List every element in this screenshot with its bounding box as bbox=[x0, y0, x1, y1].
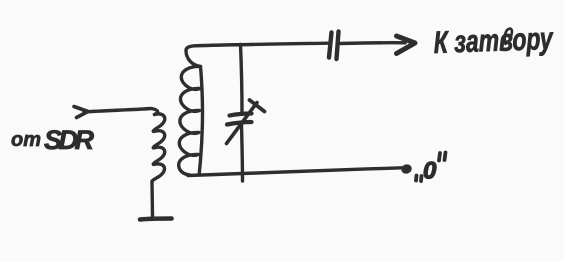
svg-text:SDR: SDR bbox=[44, 125, 95, 155]
wire: junction branch down to trimmer bbox=[241, 45, 243, 113]
inductor L1 (primary winding) bbox=[152, 114, 165, 182]
inductor L2: spine (return strokes) bbox=[199, 67, 202, 174]
arrowhead to gate bbox=[397, 36, 416, 54]
svg-text:К затвору: К затвору bbox=[433, 21, 554, 60]
wire: trimmer to bottom wire bbox=[242, 125, 243, 181]
trimmer arrow diagonal bbox=[227, 103, 258, 144]
terminal dot "0" bbox=[400, 163, 413, 174]
label "К затвору": ascender loop of cursive "в" bbox=[505, 29, 512, 44]
wire: coil to ground bbox=[150, 182, 154, 217]
wire: top (coil to capacitor C1) bbox=[195, 43, 328, 46]
trimmer capacitor C2 bottom plate bbox=[227, 122, 252, 125]
wire: C1 to output arrow bbox=[340, 41, 405, 45]
ground bbox=[140, 219, 172, 220]
capacitor C1 left plate bbox=[329, 33, 332, 58]
arrowhead input (from SDR) bbox=[74, 107, 88, 118]
wire: bottom (coil to zero terminal) bbox=[188, 168, 402, 176]
trimmer arrow T-bar bbox=[250, 100, 265, 112]
label „0": high quotes bbox=[439, 153, 446, 161]
svg-text:0: 0 bbox=[423, 158, 437, 185]
inductor L2 (secondary winding): scallops bbox=[179, 46, 201, 175]
trimmer capacitor C2 top plate bbox=[230, 114, 252, 116]
label „0": low quotes bbox=[416, 176, 422, 182]
capacitor C1 right plate bbox=[337, 32, 339, 60]
wire: input to primary coil bbox=[84, 109, 158, 115]
svg-text:от: от bbox=[11, 129, 41, 151]
